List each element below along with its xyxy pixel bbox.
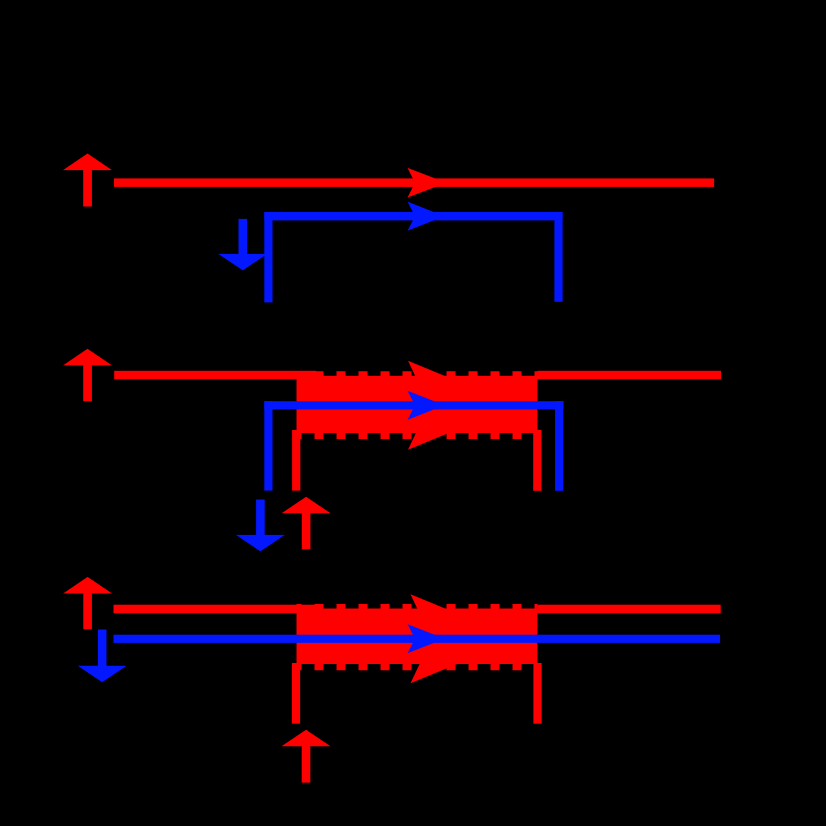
image current band fill (panel 2) [297, 376, 538, 433]
blue current direction dart (panel 2) [408, 391, 445, 420]
wire: red band right leg (panel 3) [533, 663, 541, 724]
wire: red current line right segment (panel 2) [537, 371, 721, 380]
wire: red current line left segment (panel 2) [114, 371, 316, 380]
wire: red current line left segment (panel 3) [114, 605, 317, 614]
red source arrow up (panel 1) [63, 154, 112, 207]
dashed band bottom edge (panel 3) [297, 662, 538, 670]
wire: red band left leg (panel 3) [292, 663, 300, 724]
wire: blue left leg (panel 2) [264, 401, 272, 490]
wire: red band left leg (panel 2) [292, 430, 300, 491]
wire: red current line right segment (panel 3) [537, 605, 720, 614]
dashed band top edge (panel 2) [297, 371, 538, 379]
wire: red current line I (panel 1) [114, 178, 714, 187]
red image source arrow up (panel 3, below band) [282, 730, 331, 783]
wire: blue return line (panel 2) [264, 401, 563, 409]
blue sink arrow down (panel 2, below band) [236, 500, 285, 552]
big red image-current dart (panel 2) [408, 361, 516, 450]
blue sink arrow down (panel 3 left) [78, 630, 127, 683]
red current direction dart (panel 1) [408, 168, 447, 198]
wire: blue return line (panel 3) [114, 635, 721, 643]
red source arrow up (panel 3) [63, 577, 112, 629]
blue current direction dart (panel 3) [408, 624, 445, 653]
blue sink arrow down (panel 1) [218, 219, 267, 271]
red source arrow up (panel 2) [63, 349, 112, 401]
image current band fill (panel 3) [297, 609, 538, 665]
dashed band top edge (panel 3) [297, 604, 538, 612]
dashed band bottom edge (panel 2) [297, 431, 538, 439]
wire: red band right leg (panel 2) [533, 430, 541, 491]
wire: blue right leg (panel 1) [554, 212, 562, 302]
big red image-current dart (panel 3) [411, 594, 519, 683]
red image source arrow up (panel 2, below band) [282, 497, 331, 550]
wire: blue left leg (panel 1) [264, 212, 272, 302]
blue current direction dart (panel 1) [408, 202, 445, 231]
wire: blue right leg (panel 2) [555, 401, 563, 491]
wire: blue return line top bar (panel 1) [264, 212, 562, 220]
